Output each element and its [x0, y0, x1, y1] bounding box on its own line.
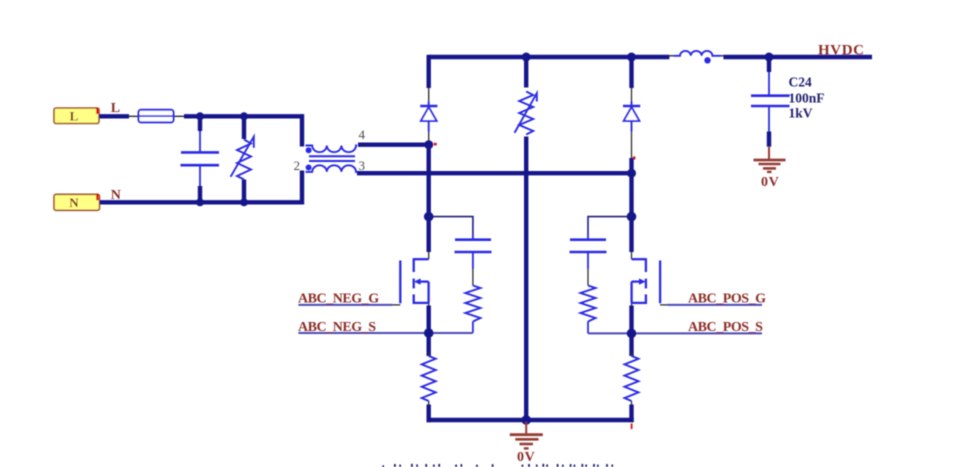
svg-text:ABC_POS_G: ABC_POS_G	[688, 292, 766, 307]
wire corner down to choke top	[300, 114, 304, 146]
mosfet Q1 drain lead	[428, 252, 430, 259]
port L	[54, 108, 99, 124]
red no-erc tick pin4	[434, 143, 437, 146]
bleeder resistor R-left	[422, 356, 436, 401]
capacitor C24 lead stubs	[767, 57, 771, 147]
wire pin3 to right branch	[357, 171, 633, 175]
svg-text:0V: 0V	[761, 175, 779, 190]
svg-text:L: L	[111, 101, 120, 116]
center branch lower wire	[524, 137, 528, 421]
ground GND bottom	[510, 422, 543, 448]
svg-text:ABC_NEG_S: ABC_NEG_S	[298, 320, 376, 335]
junction dot HVDC node	[765, 53, 774, 62]
bleeder left bottom stub	[427, 405, 431, 423]
choke T1 core lines	[309, 156, 355, 161]
bleeder resistor R-right leads	[631, 352, 633, 406]
wire N corner up to choke bottom	[300, 171, 304, 205]
svg-text:ABC_POS_S: ABC_POS_S	[688, 320, 763, 335]
junction dot top rail right	[627, 53, 636, 62]
snubber res bottom lead left	[472, 322, 474, 333]
svg-text:3: 3	[359, 158, 366, 173]
left branch lower wire	[427, 143, 431, 253]
net wire ABC_POS_S	[588, 332, 762, 334]
snubber resistor R-right	[581, 286, 596, 322]
junction dot pin4	[424, 140, 433, 149]
wire N port to choke	[100, 200, 303, 204]
red tick port N	[96, 194, 98, 201]
red tick bottom right	[631, 424, 633, 430]
caption text clipped at bottom	[382, 464, 613, 467]
wire fuse to choke corner	[184, 114, 302, 118]
diode D2 leads	[631, 88, 633, 158]
bleeder resistor R-left leads	[428, 352, 430, 406]
top rail right segment	[723, 55, 872, 59]
junction dot L-CX	[196, 112, 204, 120]
varistor RV1 lead stubs	[242, 116, 246, 202]
svg-text:ABC_NEG_G: ABC_NEG_G	[298, 292, 379, 307]
mosfet Q1 gate lead	[392, 304, 400, 306]
choke T1 bottom winding	[306, 165, 358, 172]
capacitor CX	[181, 131, 220, 186]
junction dot pin3	[627, 169, 636, 178]
capacitor CX lead stubs	[198, 116, 202, 202]
svg-text:C24: C24	[789, 75, 812, 90]
junction dot top rail center	[522, 53, 531, 62]
wire Q1 source to S junction	[427, 306, 431, 357]
inductor L1 leads	[669, 55, 723, 57]
common-mode choke T1 top winding	[306, 146, 358, 153]
mosfet Q2 gate lead	[660, 304, 668, 306]
svg-text:L: L	[70, 109, 79, 124]
inductor L1	[674, 51, 722, 56]
choke T1 phase dot bottom	[306, 165, 312, 171]
junction dot S left	[424, 328, 434, 338]
mosfet Q2	[632, 258, 661, 304]
snubber cap C-left	[455, 234, 492, 269]
svg-text:2: 2	[294, 158, 301, 173]
ground GND C24	[754, 147, 786, 172]
top rail left segment	[429, 55, 670, 59]
diode D2	[623, 102, 640, 132]
fuse F1	[139, 110, 174, 123]
mosfet Q2 source lead	[631, 303, 633, 306]
snubber wire left	[429, 217, 473, 235]
bottom rail	[427, 418, 634, 422]
junction dot drain left	[424, 212, 434, 222]
red tick port L	[96, 108, 98, 115]
wire pin4 to left branch	[358, 142, 429, 146]
junction dot L-RV1	[240, 112, 248, 120]
snubber cap-res link left	[472, 269, 474, 286]
varistor RV1	[231, 137, 254, 180]
diode D1	[420, 102, 437, 132]
snubber resistor R-left	[465, 286, 480, 322]
svg-text:4: 4	[359, 127, 366, 142]
fuse F1 leads	[129, 115, 184, 117]
port N	[54, 194, 100, 210]
svg-text:1kV: 1kV	[789, 106, 813, 121]
junction dot N-RV1	[240, 198, 248, 206]
bleeder right bottom stub	[629, 405, 633, 423]
choke T1 phase dot top	[306, 147, 312, 153]
red no-erc tick right branch	[633, 157, 636, 160]
wire L port to fuse	[99, 114, 129, 118]
capacitor C24	[751, 72, 790, 132]
snubber cap C-right	[570, 234, 607, 269]
svg-text:100nF: 100nF	[789, 91, 825, 106]
net wire ABC_POS_G	[668, 304, 763, 306]
mosfet Q2 drain lead	[631, 252, 633, 259]
svg-text:N: N	[111, 188, 121, 203]
svg-text:0V: 0V	[517, 450, 535, 465]
mosfet Q1 source lead	[428, 303, 430, 306]
svg-text:N: N	[69, 195, 79, 210]
junction dot S right	[627, 329, 637, 339]
diode D1 leads	[428, 88, 430, 143]
center branch upper wire	[524, 55, 528, 88]
snubber wire right	[588, 217, 632, 235]
left branch upper wire	[427, 55, 431, 88]
snubber cap-res link right	[587, 269, 589, 286]
junction dot drain right	[627, 212, 637, 222]
mosfet Q1	[400, 258, 428, 304]
bleeder resistor R-right	[625, 356, 639, 401]
svg-text:HVDC: HVDC	[818, 42, 865, 58]
net wire ABC_NEG_S	[298, 332, 473, 334]
junction dot bottom center	[521, 415, 531, 425]
right branch upper wire	[629, 55, 633, 88]
varistor RV2	[515, 92, 537, 135]
inductor L1 phase dot	[704, 57, 710, 63]
right branch lower wire	[629, 158, 633, 252]
net wire ABC_NEG_G	[298, 304, 392, 306]
snubber res bottom lead right	[587, 322, 589, 334]
junction dot N-CX	[196, 198, 204, 206]
wire Q2 source to S junction	[629, 306, 633, 357]
